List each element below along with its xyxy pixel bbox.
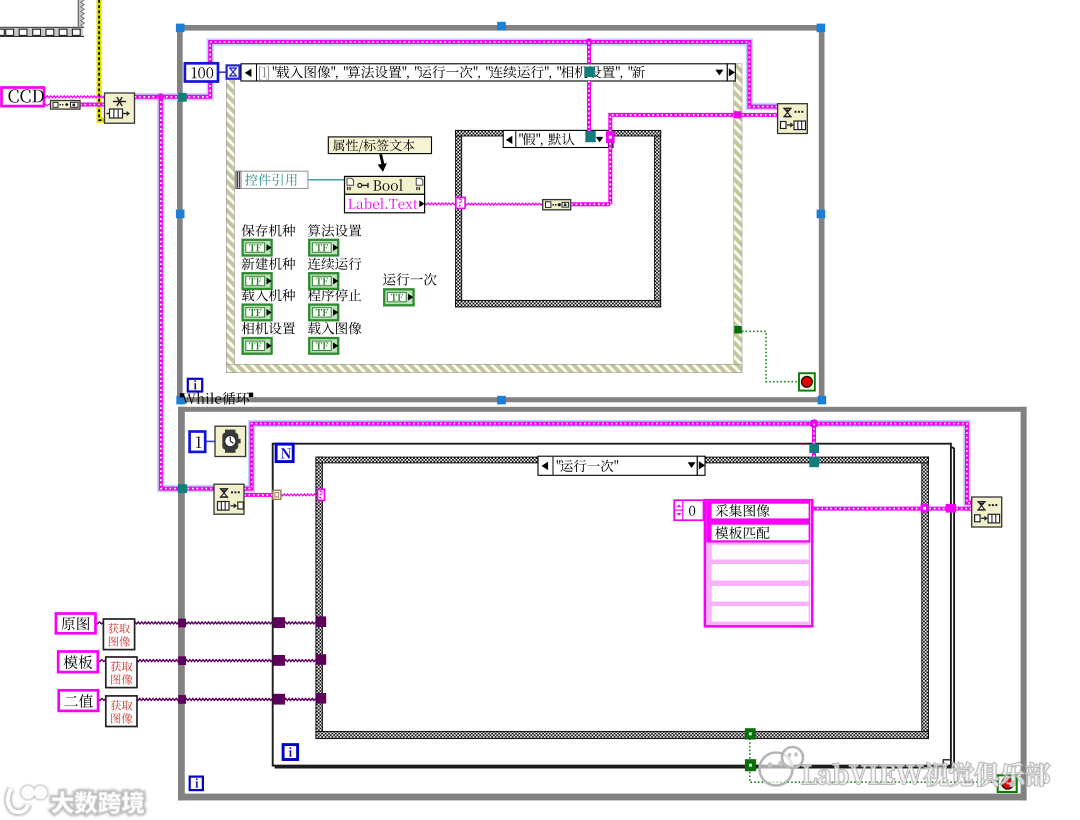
TF terminal col1 row2 [243,273,272,289]
inner case selector text [519,133,574,147]
wire: 1 to wait multiple [205,440,215,442]
wire: selector branch down into case (above label) [587,42,591,64]
wire: 100 to wait ms [218,71,227,73]
numeric constant 1 [190,432,206,452]
wire: element to case 2 selector [281,494,318,496]
tunnel: image into case2 [316,654,327,665]
i terminal loop1 [188,379,202,392]
watermark wechat logo [760,747,804,786]
i terminal loop2 [190,777,203,791]
property node Bool [345,176,425,194]
arrow down [379,154,384,166]
event structure fragment (partial, top-left) [0,0,84,37]
tunnel: dequeue element {} [273,490,281,499]
label 属性/标签文本 [328,137,431,154]
wire: Label.Text to case selector [425,203,456,205]
TF terminal col2 row3 [309,305,338,321]
tunnel: boolean out of for loop [745,759,756,771]
TF terminal col1 row1 [243,240,272,256]
label 相机设置 [242,322,296,335]
case1 selector text [259,67,269,80]
array element text 采集图像 [715,504,769,517]
i terminal for loop [283,745,298,760]
CCD image control [2,88,45,107]
TF terminal col2 row1 [309,240,338,256]
获取图像 subvi [106,696,137,727]
wire: string array to enqueue [812,507,971,511]
tunnel: queue into loop1 [178,93,187,102]
label 保存机种 [242,224,296,237]
wire: stop boolean loop2 [750,739,998,783]
watermark text 大数跨境 [52,791,145,814]
wire: small vi to obtain queue [80,103,105,107]
obtain queue vi [105,93,135,123]
image wires (dark purple) [96,622,104,624]
wire: selector branch down into case (below label) [587,81,591,133]
watermark text LabVIEW视觉俱乐部 [802,762,1050,786]
empty string vi [543,200,571,210]
wire [244,424,972,503]
tunnel: case2 right element [921,504,929,513]
tunnel: case1 right element out [734,111,741,118]
tunnel: boolean out of case1 [734,326,742,334]
error wire (yellow/black) [99,0,105,120]
case structure 1 (striped border) [226,79,234,373]
tunnel: for loop top refnum [809,444,819,453]
label 运行一次 [383,273,436,286]
tunnel: image into for loop [273,655,285,666]
tunnel: image into case2 [316,693,327,704]
stop button loop2 [998,775,1017,792]
wire [135,42,778,107]
selection handles of while loop 1 [176,24,185,33]
label 载入图像 [308,322,362,335]
label 程序停止 [308,289,362,302]
获取图像 subvi [103,619,134,650]
selector terminal ? (inner case) [456,197,465,208]
wire: refnum branch into case 2 [812,424,816,466]
wire: CCD to small vi [44,104,51,106]
TF terminal 运行一次 [384,289,413,305]
array index box [674,500,703,520]
dequeue element vi [214,484,244,514]
tunnel: image into loop2 [178,695,186,704]
case 1 selector label [241,64,727,81]
tunnel: selector branch through case1 top [585,67,595,77]
string array constant [706,501,810,542]
wire: queue refnum down to loop 2 [161,97,214,489]
wire: case out to enqueue element input [610,115,777,131]
While循环 label [182,392,249,405]
inner case structure (checkered border) [456,130,462,307]
tunnel: queue into loop2 [178,484,187,493]
image control 二值 [59,690,98,711]
TF terminal col1 row3 [243,305,272,321]
wait until next ms multiple vi [215,426,246,456]
camera name vi [51,101,81,110]
enqueue element vi (loop2) [972,497,1002,527]
wire: dequeue element out [244,493,273,497]
wire: control refnum to property node [308,179,345,181]
watermark logo 100 [8,789,28,812]
tunnel: image into loop2 [178,619,186,628]
label 算法设置 [308,224,361,237]
stop button loop1 [799,373,815,390]
获取图像 subvi [106,657,137,688]
TF terminal col2 row2 [309,273,338,289]
selector terminal ? (case2) [318,489,325,500]
junction dot [585,38,592,45]
array element text 模板匹配 [715,526,769,539]
tunnel: image into loop2 [178,656,186,665]
tunnel: case2 top refnum [809,457,819,467]
image control 模板 [58,652,98,673]
tunnel: for loop right element [946,504,956,513]
wire: inner case output (inside) [608,143,612,204]
case 2 selector label [538,456,697,475]
junction dot [157,93,164,100]
inner case selector label [503,130,613,147]
TF terminal col1 row4 [243,338,272,354]
tunnel: boolean out of case2 [745,728,756,739]
wire: CCD name string to obtain queue [44,96,105,98]
N count terminal [276,444,293,462]
while loop 1 border [177,25,825,31]
label 载入机种 [242,289,296,302]
numeric constant 100 [185,63,218,81]
image control 原图 [56,614,96,634]
wire: stop boolean loop1 [742,331,799,381]
label 连续运行 [308,258,362,271]
wait ms icon [227,65,240,78]
case2 selector text [557,460,619,473]
enqueue element vi (loop1) [778,104,808,134]
case structure 2 (checkered border) [316,457,323,738]
while loop 2 border [178,407,1027,412]
tunnel: image into for loop [273,617,285,628]
wire: selector to vi (inside inner case) [465,203,543,205]
wire: vi to inner tunnel [571,202,610,206]
control refnum 控件引用 [236,171,241,188]
tunnel: inner case selector input [585,131,595,142]
tunnel: image into case2 [316,616,327,627]
label 新建机种 [242,257,296,270]
TF terminal col2 row4 [309,338,338,354]
junction dot [810,419,819,428]
tunnel: inner case output [606,131,615,143]
tunnel: image into for loop [273,694,285,705]
for loop border (stacked) [276,448,955,768]
